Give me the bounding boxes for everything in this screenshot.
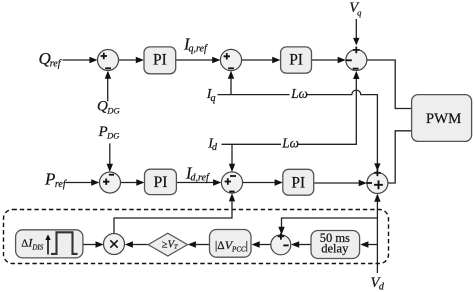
wire Iq feedback with hop	[218, 90, 381, 171]
wire Iq branch up into sum2 bottom	[228, 71, 234, 95]
svg-text:Lω: Lω	[290, 86, 308, 101]
wire delay to minus junction	[291, 241, 311, 247]
summing junction sumP	[100, 172, 121, 193]
svg-text:PI: PI	[153, 52, 167, 69]
wire sumP to PI3	[121, 179, 145, 185]
multiplier circle	[104, 234, 125, 255]
wire PI3 to sum2d	[176, 179, 221, 185]
wire Id feedback	[222, 71, 360, 145]
svg-text:PI: PI	[291, 174, 305, 191]
wire Pdg into sumP top	[107, 144, 113, 173]
minus junction	[271, 233, 291, 255]
dashed detection box	[4, 210, 389, 264]
PI block 1	[144, 47, 176, 74]
svg-text:PI: PI	[154, 174, 168, 191]
summing junction sum2	[220, 49, 241, 70]
deltaIdis block with pulse symbol	[16, 230, 83, 258]
wire sum3 output to PWM input 1	[367, 60, 412, 109]
wire Vd tap to delay block	[360, 241, 377, 247]
wire sum2d to PI4	[243, 179, 283, 185]
wire deltaIdis block to multiplier	[83, 241, 104, 247]
deltaVpcc block	[210, 230, 252, 258]
PI block 3	[145, 169, 177, 194]
svg-text:PWM: PWM	[426, 111, 461, 127]
wire Vd tap to minus junction top	[278, 218, 377, 235]
wire minus junction to deltaVpcc block	[252, 241, 271, 247]
wire PI1 to sum2	[176, 57, 221, 63]
PWM block	[412, 95, 472, 142]
wire multiplier output up into sum2d bottom	[114, 193, 235, 233]
wire Vd trunk into sum3d bottom	[374, 194, 380, 274]
wire Qdg into sum1 bottom	[105, 71, 111, 102]
summing junction sum3d	[366, 170, 388, 194]
summing junction sum2d	[221, 172, 242, 193]
wire deltaVpcc to comparator diamond	[188, 241, 210, 247]
PI block 4	[283, 169, 314, 195]
svg-text:delay: delay	[321, 242, 349, 256]
wire sum2 to PI2	[242, 57, 281, 63]
wire sum1 to PI1	[119, 57, 145, 63]
summing junction sum3	[346, 47, 367, 71]
wire Vq into sum3 top	[353, 19, 359, 45]
svg-text:PI: PI	[289, 52, 303, 69]
wire sum3d output to PWM input 2	[388, 131, 412, 183]
50 ms delay block	[311, 231, 360, 259]
wire PI2 to sum3	[312, 57, 346, 63]
svg-text:Lω: Lω	[281, 136, 299, 151]
wire PI4 to sum3d	[314, 180, 367, 186]
wire Qref to sum1	[63, 57, 98, 63]
PI block 2	[281, 47, 312, 73]
comparator diamond	[148, 233, 187, 256]
summing junction sum1	[98, 50, 119, 71]
wire Id branch down into sum2d top	[229, 144, 235, 172]
wire Pref to sumP	[66, 179, 100, 185]
wire diamond to multiplier	[125, 241, 149, 247]
